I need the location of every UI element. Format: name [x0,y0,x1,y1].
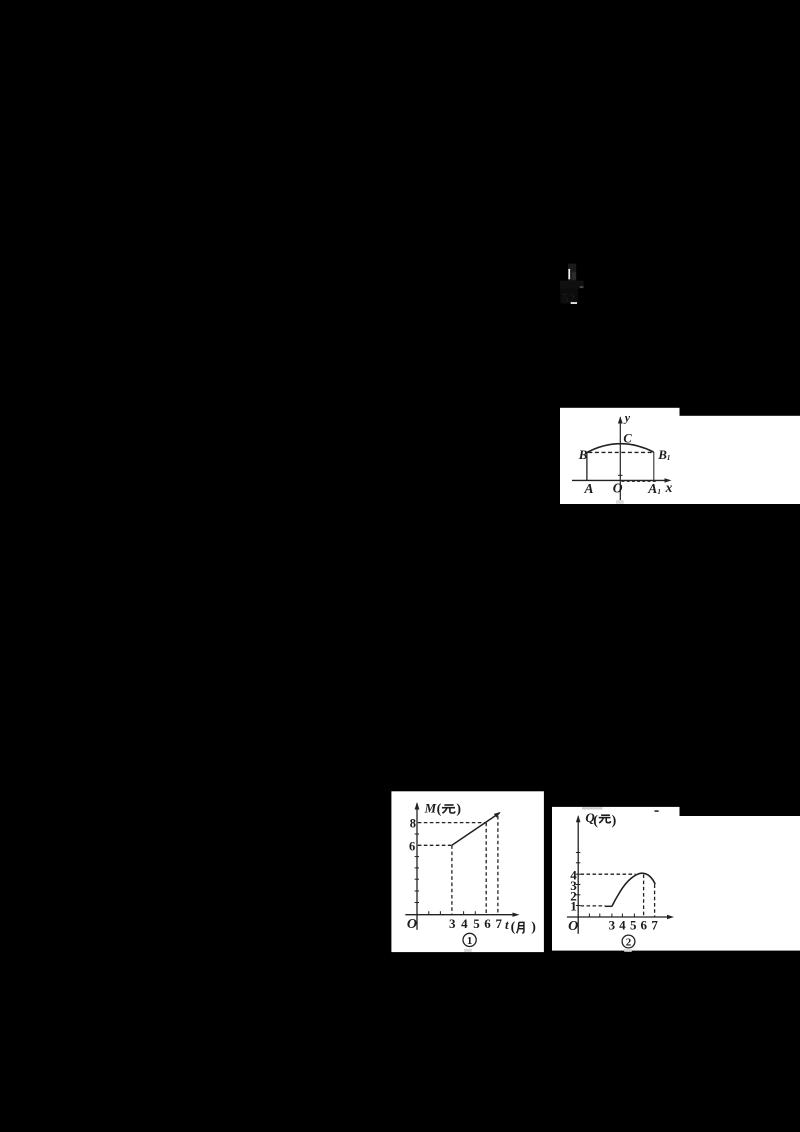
svg-text:1: 1 [570,898,577,913]
fraction white underline [571,302,577,304]
flat price segment [605,905,612,907]
price line [452,813,500,845]
segment A1B1 [653,452,655,480]
price line arrowhead [494,812,501,818]
svg-text:8: 8 [410,817,416,831]
x-axis [572,479,669,481]
svg-text:4: 4 [619,918,626,933]
svg-text:3: 3 [609,918,616,933]
svg-text:A: A [584,481,594,496]
svg-text:): ) [531,920,536,935]
dashed vertical x=7 fig3 [654,884,656,917]
segment AB [586,453,588,481]
dashed line y=8 [418,822,486,824]
dashed vertical x=6 [485,823,487,915]
dashed vertical x=6 fig3 [643,874,645,917]
fig2 gray tab [464,949,472,952]
svg-text:): ) [612,814,617,829]
svg-text:y: y [623,411,631,425]
svg-text:7: 7 [651,918,658,933]
figure2 white panel [391,791,544,952]
svg-text:3: 3 [449,916,456,931]
circled 2 [622,935,635,948]
fraction bar gray dash [580,286,584,288]
dashed vertical x=3 [451,845,453,914]
svg-text:1: 1 [657,488,661,496]
fraction block background [568,264,576,281]
svg-text:7: 7 [495,916,502,931]
svg-text:4: 4 [461,916,468,931]
svg-text:5: 5 [630,918,637,933]
svg-text:O: O [568,919,578,934]
svg-text:): ) [456,802,461,817]
dashed vertical x=7 [497,816,499,915]
dashed line y=6 [418,844,452,846]
figure1 gray tab [616,500,624,504]
svg-text:1: 1 [667,454,671,462]
glyph yuan fig3 [599,815,611,823]
svg-text:6: 6 [484,916,491,931]
svg-text:x: x [665,480,673,495]
svg-text:6: 6 [409,839,415,853]
svg-text:B: B [657,447,667,462]
fraction denominator 52 (dark) [560,289,578,304]
fig3 Q-axis [577,817,579,934]
svg-text:6: 6 [641,918,648,933]
price curve [612,873,655,906]
figure3 top dark dash [655,810,659,812]
svg-text:t: t [505,917,509,932]
svg-text:5: 5 [473,916,480,931]
dashed line y=4 [581,873,636,875]
fig2 M-axis [416,804,418,930]
fraction lighter block [572,272,576,280]
figure3 white main panel [552,816,800,951]
svg-text:M: M [424,800,437,815]
svg-text:2: 2 [626,936,632,948]
arc BCB1 [587,444,654,453]
svg-text:O: O [407,917,417,932]
fig2 t-axis [405,914,516,916]
figure3 top-left gray streak [582,807,603,809]
fraction numerator 1 (white bar) [568,269,570,279]
glyph yuan fig2 [442,805,455,813]
circled 1 [463,933,476,946]
svg-text:(: ( [593,814,598,829]
svg-text:1: 1 [467,935,473,947]
svg-text:A: A [647,481,657,496]
figure3 white top strip [552,807,680,817]
fig3 t-axis [567,916,671,918]
fig3 t-axis arrowhead [667,915,674,919]
glyph yue fig2 [517,922,524,933]
fig3 t-axis ticks [589,914,634,918]
y-axis arrowhead [618,416,623,423]
Q-axis ticks [576,853,581,906]
fig3 Q-axis arrowhead [576,815,581,822]
figure1 white main panel [560,416,800,504]
fig2 M-axis arrowhead [415,802,420,810]
x-axis arrowhead [665,478,672,482]
dashed line y=1 [581,905,606,907]
dashes on axis O-A1 [622,480,657,482]
svg-text:O: O [613,481,623,496]
t-axis ticks [429,911,476,915]
M-axis ticks [415,834,419,903]
figure1 white top strip [560,408,680,417]
svg-text:(: ( [511,920,516,935]
fraction mid band [560,281,584,289]
y-axis [619,418,621,501]
fig3 gray tab [624,949,632,952]
dashed line B-B1 [588,451,652,453]
fig2 t-axis arrowhead [513,913,520,917]
svg-text:(: ( [437,802,442,817]
